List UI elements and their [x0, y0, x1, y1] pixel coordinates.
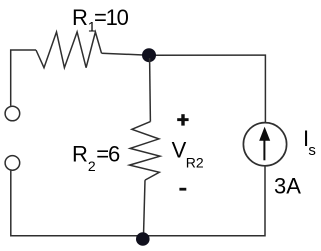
resistor R1	[36, 32, 102, 68]
svg-text:3A: 3A	[274, 174, 301, 199]
current source Is circle	[243, 123, 286, 166]
node A (top junction dot)	[142, 48, 156, 62]
wire source to bottom-right corner	[11, 166, 265, 236]
svg-text:=6: =6	[96, 142, 120, 167]
svg-text:2: 2	[88, 158, 96, 174]
terminal (upper open circle)	[5, 106, 20, 121]
svg-text:V: V	[172, 137, 187, 162]
current source arrow	[263, 140, 265, 160]
svg-text:=10: =10	[94, 5, 129, 30]
svg-text:R: R	[72, 5, 88, 30]
plus polarity mark	[177, 114, 188, 125]
node B (bottom junction dot)	[136, 232, 150, 246]
wire node to R2 top	[149, 58, 152, 122]
wire R2 to bottom node	[144, 180, 146, 236]
svg-text:R2: R2	[186, 154, 204, 170]
svg-text:R: R	[72, 142, 88, 167]
minus polarity mark	[179, 188, 186, 191]
svg-text:s: s	[308, 142, 316, 159]
resistor R2	[130, 122, 161, 181]
terminal (lower open circle)	[5, 156, 20, 171]
wire R1 to top-right corner	[102, 53, 266, 122]
wire top-left segment and left rail upper	[11, 50, 36, 106]
